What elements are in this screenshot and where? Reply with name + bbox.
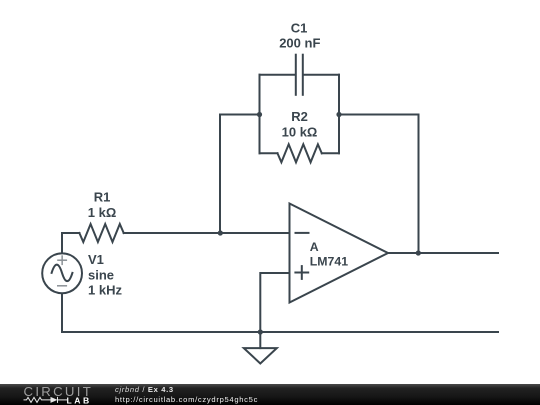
svg-text:200 nF: 200 nF xyxy=(279,36,320,51)
svg-text:R1: R1 xyxy=(94,190,111,205)
svg-text:1 kHz: 1 kHz xyxy=(88,282,122,297)
svg-text:10 kΩ: 10 kΩ xyxy=(282,125,318,140)
svg-text:LM741: LM741 xyxy=(310,255,348,269)
svg-text:LAB: LAB xyxy=(67,395,92,405)
svg-text:1 kΩ: 1 kΩ xyxy=(88,205,117,220)
svg-text:sine: sine xyxy=(88,267,114,282)
svg-text:V1: V1 xyxy=(88,252,104,267)
svg-text:C1: C1 xyxy=(291,21,308,36)
svg-text:R2: R2 xyxy=(291,109,308,124)
svg-text:A: A xyxy=(310,240,319,254)
